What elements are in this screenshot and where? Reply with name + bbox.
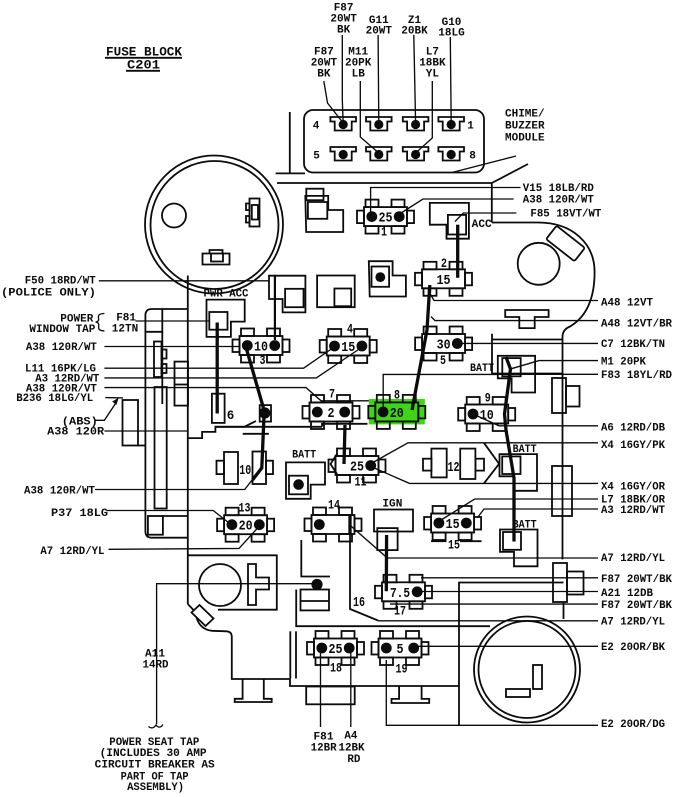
bottom block top edge bbox=[188, 555, 277, 609]
terminal row2-3 bbox=[403, 147, 429, 161]
svg-text:A3 12RD/WT: A3 12RD/WT bbox=[601, 505, 665, 517]
right edge H-tab connector 1 bbox=[552, 378, 580, 413]
wire F85 to ACC cavity bbox=[455, 213, 516, 222]
left tall slot cavity bbox=[155, 387, 167, 509]
wire F83 from BATT cavity bbox=[498, 373, 598, 375]
svg-text:20BK: 20BK bbox=[401, 26, 428, 38]
terminal row1-3 bbox=[403, 117, 429, 131]
wire Z1 to terminal row1-3 bbox=[414, 35, 416, 124]
svg-text:1: 1 bbox=[381, 226, 387, 240]
svg-text:4: 4 bbox=[313, 121, 320, 133]
fuse 5 30A bbox=[415, 327, 472, 369]
wire L11 to fuse 4 left bbox=[104, 349, 332, 369]
fuse 2 15A bbox=[415, 257, 472, 296]
wire B236 to ABS tab bbox=[105, 397, 123, 399]
svg-text:13: 13 bbox=[239, 502, 251, 516]
terminal pin 4 bbox=[330, 117, 356, 131]
wire C7 from fuse 5 right dot bbox=[457, 342, 599, 344]
svg-text:6: 6 bbox=[227, 409, 235, 423]
svg-text:30: 30 bbox=[437, 339, 451, 354]
compartment short line below junction bbox=[243, 433, 269, 435]
svg-text:A38 120R: A38 120R bbox=[47, 426, 104, 438]
wire A7 right1 from fuse 14 bbox=[351, 526, 599, 558]
wire into position 16 cell bbox=[348, 516, 351, 534]
svg-text:A38 120R/WT: A38 120R/WT bbox=[24, 486, 95, 498]
svg-text:BUZZER: BUZZER bbox=[505, 121, 545, 133]
svg-text:A4: A4 bbox=[344, 731, 357, 743]
BATT cavity 1 bbox=[498, 356, 535, 393]
relay inner circle bbox=[518, 243, 560, 285]
window tap slot cavity bbox=[154, 342, 167, 378]
fuse 17 7.5A bbox=[375, 575, 432, 619]
wire BATT bus bbox=[505, 357, 515, 542]
svg-text:2: 2 bbox=[441, 257, 447, 271]
svg-text:A7 12RD/YL: A7 12RD/YL bbox=[601, 553, 665, 565]
svg-text:YL: YL bbox=[426, 69, 440, 81]
compartment stepped boundary bbox=[188, 421, 256, 438]
ABS tab cavity bbox=[123, 400, 139, 446]
svg-text:12BR: 12BR bbox=[311, 742, 337, 754]
fuse 11 25A bbox=[329, 449, 386, 490]
connector mount tab bbox=[306, 189, 323, 201]
blower hole inner circle bbox=[479, 621, 576, 718]
svg-text:POWER SEAT TAP: POWER SEAT TAP bbox=[109, 737, 199, 749]
compartment pointed right bbox=[484, 443, 499, 484]
svg-text:25: 25 bbox=[329, 643, 343, 658]
wire M1 from BATT cavity bbox=[511, 361, 598, 369]
svg-text:BK: BK bbox=[337, 25, 351, 37]
wire A48 12VT/BR bbox=[431, 317, 598, 321]
junction cavity with terminal bbox=[259, 405, 271, 422]
ABS arrow bbox=[96, 398, 119, 421]
wire ACC to fuse 2 bbox=[456, 225, 459, 278]
cavity block A (top middle) bbox=[305, 196, 343, 232]
PWR ACC cavity bbox=[207, 300, 245, 337]
position 10 cavity pair bbox=[217, 452, 274, 485]
small hole in circle bbox=[162, 204, 186, 228]
svg-text:ASSEMBLY): ASSEMBLY) bbox=[127, 782, 184, 794]
block right edge vertical bbox=[562, 337, 564, 559]
svg-text:F87 20WT/BK: F87 20WT/BK bbox=[601, 600, 672, 612]
svg-text:F87 20WT/BK: F87 20WT/BK bbox=[601, 574, 672, 586]
right edge tall tab connector bbox=[552, 466, 572, 516]
left tab rounded (power window tap) bbox=[145, 309, 188, 538]
svg-text:18: 18 bbox=[330, 662, 342, 676]
wire V15 from fuse 1 left dot bbox=[371, 188, 521, 216]
svg-text:CIRCUIT BREAKER AS: CIRCUIT BREAKER AS bbox=[95, 760, 215, 772]
wire IGN to fuse 17 bbox=[385, 535, 389, 591]
svg-text:F83 18YL/RD: F83 18YL/RD bbox=[601, 370, 672, 382]
svg-text:C7 12BK/TN: C7 12BK/TN bbox=[601, 339, 665, 351]
wire X4 16GY/PK from fuse 11 right dot bbox=[372, 443, 598, 463]
wire L7 to terminal row2-3 bbox=[416, 81, 433, 153]
svg-text:10: 10 bbox=[480, 409, 494, 424]
svg-text:F50 18RD/WT: F50 18RD/WT bbox=[25, 276, 96, 288]
junction box below bbox=[301, 590, 330, 611]
wire F87 to terminal 4 bbox=[341, 35, 344, 124]
label G11 20WT bbox=[366, 15, 393, 38]
chime module pointer line bbox=[452, 156, 516, 173]
block right edge upper vertical bbox=[491, 183, 493, 223]
E2 box outline bbox=[459, 583, 564, 726]
svg-text:X4 16GY/OR: X4 16GY/OR bbox=[601, 482, 665, 494]
label F50 18RD/WT (POLICE ONLY) bbox=[1, 276, 96, 300]
wire E2 20OR/DG from fuse 19 left dot bbox=[386, 660, 598, 725]
svg-text:18LG: 18LG bbox=[438, 28, 465, 40]
svg-text:X4 16GY/PK: X4 16GY/PK bbox=[601, 440, 665, 452]
wire A6 from fuse 9 left dot bbox=[474, 415, 598, 426]
compartment boundary right step bbox=[322, 424, 368, 427]
relay tilted key rect bbox=[546, 226, 585, 262]
wire A21 from fuse 17 right dot bbox=[414, 591, 598, 593]
wire PWR ACC to position 6 bbox=[216, 323, 219, 414]
junction box left edge bbox=[296, 590, 490, 627]
T-shaped cavity below relay bbox=[505, 310, 548, 328]
position 6 cavity bbox=[212, 394, 225, 423]
terminal pin 5 bbox=[330, 147, 356, 161]
svg-text:3: 3 bbox=[260, 354, 266, 368]
svg-text:8: 8 bbox=[469, 151, 476, 163]
svg-text:8: 8 bbox=[394, 388, 400, 402]
fuse 18 25A bbox=[307, 631, 364, 676]
wire G11 to terminal row1-2 bbox=[377, 35, 380, 124]
svg-text:BATT: BATT bbox=[470, 363, 494, 375]
wire A11 tap bbox=[157, 584, 312, 725]
block left edge upper vertical bbox=[187, 276, 189, 605]
wire fuse2 down to fuse5 and fuse 8 bbox=[412, 285, 430, 410]
terminal pin 1 bbox=[438, 117, 464, 131]
svg-text:V15 18LB/RD: V15 18LB/RD bbox=[523, 183, 594, 195]
compartment pointed left bbox=[331, 454, 338, 474]
svg-text:1: 1 bbox=[467, 121, 474, 133]
wire A38 120R/VT to fuse 8 bbox=[104, 388, 370, 401]
svg-text:F85 18VT/WT: F85 18VT/WT bbox=[530, 209, 601, 221]
ignition-switch hole inner circle bbox=[151, 161, 279, 289]
svg-text:A7 12RD/YL: A7 12RD/YL bbox=[601, 617, 665, 629]
svg-text:A38 120R/WT: A38 120R/WT bbox=[523, 194, 594, 206]
fuse 3 10A bbox=[233, 329, 290, 369]
svg-text:B236 18LG/YL: B236 18LG/YL bbox=[16, 393, 93, 405]
relay chamber lower rect right edge bbox=[492, 334, 563, 374]
compartment line right of label 15 bbox=[460, 540, 482, 542]
wire junction down to A38 tap bbox=[253, 416, 265, 480]
svg-text:(INCLUDES 30 AMP: (INCLUDES 30 AMP bbox=[100, 748, 207, 760]
wire A11 squiggle bbox=[149, 725, 164, 728]
cross cavity bbox=[248, 564, 269, 605]
label CHIME/BUZZER MODULE bbox=[505, 109, 545, 145]
ACC cavity bbox=[430, 203, 469, 239]
wire block D to fuse 3 right dot bbox=[274, 276, 276, 340]
svg-text:A48 12VT/BR: A48 12VT/BR bbox=[601, 318, 672, 330]
blower slot horizontal bbox=[506, 689, 530, 697]
svg-text:5: 5 bbox=[397, 643, 404, 658]
terminal pin 8 bbox=[438, 147, 464, 161]
relay chamber bottom edge bbox=[492, 339, 563, 341]
channel verticals bbox=[290, 631, 296, 678]
pedestal cavity under fuse 19 bbox=[392, 686, 430, 703]
fuse 8 20A bbox=[368, 388, 425, 429]
svg-text:MODULE: MODULE bbox=[505, 133, 545, 145]
wire F50 police bbox=[99, 280, 269, 282]
cavity block B with terminal dot bbox=[369, 261, 406, 296]
label F87 20WT BK (wire to pin 4 top) bbox=[330, 3, 357, 37]
svg-text:BK: BK bbox=[317, 69, 331, 81]
svg-text:14RD: 14RD bbox=[143, 660, 169, 672]
wire fuse2 bottom to A48 bbox=[428, 288, 431, 293]
block top edge left of connector bbox=[276, 172, 305, 174]
wire X4 16GY/OR from fuse 11 right dot bbox=[372, 467, 598, 483]
block edge vertical left of connector bbox=[289, 112, 291, 173]
bottom tab connector in circle bbox=[203, 250, 230, 265]
svg-text:25: 25 bbox=[350, 461, 364, 476]
wire E2 20OR/BK from fuse 19 right dot bbox=[414, 645, 598, 647]
svg-text:A48 12VT: A48 12VT bbox=[601, 297, 653, 309]
svg-text:E2 20OR/DG: E2 20OR/DG bbox=[601, 719, 665, 731]
svg-text:15: 15 bbox=[341, 341, 355, 356]
left square cavity bbox=[148, 516, 189, 535]
compartment line left of label 15 bbox=[431, 540, 447, 542]
svg-text:CHIME/: CHIME/ bbox=[505, 109, 545, 121]
svg-text:20: 20 bbox=[239, 520, 253, 535]
fuse 1 25A bbox=[357, 200, 414, 240]
svg-text:20: 20 bbox=[390, 407, 404, 422]
svg-text:14: 14 bbox=[328, 499, 340, 513]
wire fuse 18 left dot down F81 bbox=[320, 653, 322, 727]
svg-text:A38 120R/WT: A38 120R/WT bbox=[26, 342, 97, 354]
left inner vertical bbox=[161, 332, 163, 404]
svg-text:16: 16 bbox=[353, 596, 365, 611]
position 16 compartment bbox=[350, 515, 378, 620]
A11 junction terminal dot bbox=[311, 579, 322, 590]
label POWER WINDOW TAP bbox=[29, 314, 95, 336]
svg-text:WINDOW TAP: WINDOW TAP bbox=[29, 324, 95, 336]
fuse 15 15A bbox=[424, 506, 481, 553]
BATT cavity 3 bbox=[500, 530, 538, 567]
svg-text:20WT: 20WT bbox=[366, 26, 393, 38]
label F81 12TN bbox=[112, 313, 138, 336]
svg-text:RD: RD bbox=[347, 754, 360, 766]
wire F87-1 from fuse 17 bbox=[421, 577, 598, 579]
fuse 14 bbox=[305, 499, 362, 542]
wire A7 left to fuse 13 right dot bbox=[109, 527, 260, 550]
svg-text:M1 20PK: M1 20PK bbox=[601, 356, 646, 368]
svg-text:15: 15 bbox=[437, 274, 451, 289]
title underline bbox=[105, 57, 182, 59]
svg-text:A6 12RD/DB: A6 12RD/DB bbox=[601, 422, 665, 434]
label F87 20WT BK (wire to pin 4 diagonal) bbox=[311, 47, 338, 81]
svg-text:12TN: 12TN bbox=[112, 323, 138, 335]
junction box above bbox=[301, 540, 330, 577]
svg-text:2: 2 bbox=[328, 407, 335, 422]
fuse 8 highlight bbox=[369, 399, 425, 425]
cavity block C bbox=[317, 276, 355, 308]
wire A38 120R/WT lower to junction bbox=[95, 480, 252, 490]
wire fuse 3 left dot to junction bbox=[247, 349, 265, 410]
connector C201 8-pin outline bbox=[304, 110, 484, 173]
wire fuse 7 to fuse 11 bbox=[344, 425, 345, 464]
fuse 9 10A bbox=[458, 392, 515, 432]
fuse 13 20A bbox=[217, 502, 274, 542]
svg-text:(POLICE ONLY): (POLICE ONLY) bbox=[1, 288, 96, 300]
bottom block outline curve bbox=[188, 604, 459, 686]
wire L7 from fuse 15 left dot bbox=[440, 499, 599, 521]
svg-text:5: 5 bbox=[440, 354, 446, 368]
svg-text:BATT: BATT bbox=[292, 450, 316, 462]
terminal row1-2 bbox=[366, 117, 392, 131]
svg-text:4: 4 bbox=[347, 323, 353, 337]
wire A3 right to fuse 15 bbox=[478, 509, 598, 517]
BATT cavity with terminal dot bbox=[286, 462, 325, 498]
left tab inner edge bbox=[146, 309, 162, 332]
svg-text:A21 12DB: A21 12DB bbox=[601, 588, 653, 600]
wire A3 to fuse 4 right bbox=[104, 349, 360, 378]
position 12 cavity pair bbox=[423, 449, 484, 479]
power window tap brace bbox=[96, 314, 105, 331]
svg-text:7: 7 bbox=[329, 388, 335, 402]
IGN cavity bbox=[374, 510, 413, 551]
bottom block circle bbox=[199, 564, 241, 606]
svg-text:ACC: ACC bbox=[472, 219, 492, 231]
door tilted rect bbox=[192, 605, 214, 626]
title C201 underline bbox=[126, 70, 160, 72]
wire F81 window tap to PWR ACC cavity bbox=[136, 320, 210, 322]
svg-text:15: 15 bbox=[448, 539, 460, 553]
cavity block D bbox=[269, 276, 305, 313]
compartment boundary and wire to fuse 8 left dot bbox=[383, 374, 497, 406]
key connector shape in circle bbox=[246, 199, 260, 227]
power seat tap box bbox=[306, 687, 355, 705]
label L7 18BK YL bbox=[419, 47, 446, 81]
block right edge lower vertical bbox=[563, 602, 565, 619]
relay cavity outline bbox=[492, 223, 595, 338]
svg-text:19: 19 bbox=[396, 663, 408, 677]
wire F87-2 from fuse 17 bbox=[390, 603, 598, 605]
wire M11 to terminal row2-2 bbox=[360, 81, 379, 153]
fuse 19 5A bbox=[372, 631, 429, 677]
wire A38 120R to block edge bbox=[104, 430, 188, 432]
label G10 18LG bbox=[438, 17, 465, 40]
label Z1 20BK bbox=[401, 15, 428, 38]
wire F87-2 to terminal 4 bbox=[324, 81, 343, 123]
wire A38 120R/WT to fuse 3 bbox=[104, 346, 240, 348]
svg-text:A7 12RD/YL: A7 12RD/YL bbox=[40, 546, 104, 558]
pedestal cavity bbox=[235, 679, 272, 702]
svg-text:E2 20OR/BK: E2 20OR/BK bbox=[601, 642, 665, 654]
right edge H-tab connector 2 bbox=[553, 563, 584, 602]
wire A7 right2 bbox=[378, 620, 598, 622]
fuse 7 2A bbox=[303, 388, 360, 430]
svg-text:9: 9 bbox=[485, 392, 491, 406]
svg-text:15: 15 bbox=[446, 518, 460, 533]
ABS tab lower edge bbox=[138, 445, 145, 447]
wire A48 12VT from fuse 2 bbox=[430, 293, 599, 301]
block top edge bbox=[277, 164, 528, 183]
label POWER SEAT TAP note bbox=[95, 737, 215, 794]
fuse 4 15A bbox=[320, 323, 377, 364]
label A4 12BK RD bbox=[339, 731, 365, 767]
BATT cavity 2 bbox=[500, 454, 538, 491]
wire fuse 18 right dot down A4 bbox=[350, 653, 352, 727]
left edge cells bbox=[175, 362, 189, 406]
label M11 20PK LB bbox=[345, 47, 372, 81]
wire P37 to fuse 13 left dot bbox=[107, 511, 229, 524]
ignition-switch hole outer circle bbox=[145, 156, 283, 294]
svg-text:11: 11 bbox=[355, 476, 367, 490]
svg-text:10: 10 bbox=[239, 464, 251, 479]
label A11 14RD bbox=[143, 649, 169, 672]
svg-text:12BK: 12BK bbox=[339, 742, 365, 754]
terminal row2-2 bbox=[366, 147, 392, 161]
svg-text:LB: LB bbox=[352, 69, 366, 81]
blower slot vertical bbox=[533, 665, 542, 689]
wire G10 to terminal 1 bbox=[449, 37, 452, 124]
blower hole outer circle bbox=[474, 617, 580, 723]
svg-text:P37 18LG: P37 18LG bbox=[51, 508, 108, 520]
svg-text:25: 25 bbox=[379, 212, 393, 227]
label F81 12BR bbox=[311, 731, 337, 754]
svg-text:17: 17 bbox=[394, 605, 406, 619]
svg-text:5: 5 bbox=[313, 151, 320, 163]
compartment line under fuse 7 bbox=[215, 426, 322, 428]
svg-text:12: 12 bbox=[448, 461, 460, 476]
svg-text:7.5: 7.5 bbox=[390, 587, 410, 602]
wire A38 from fuse 1 right dot bbox=[400, 199, 514, 214]
